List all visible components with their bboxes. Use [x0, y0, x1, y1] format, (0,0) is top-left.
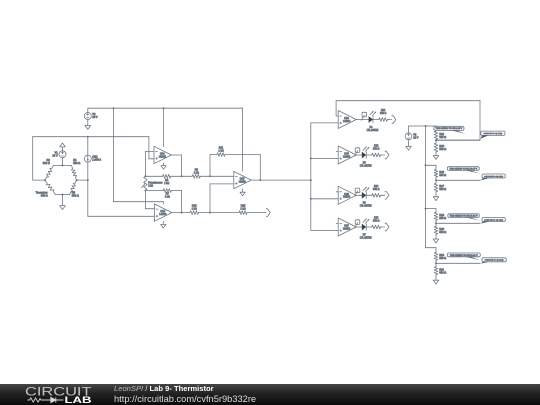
node bridge top	[62, 164, 64, 166]
wire ammeter to OA2 plus	[88, 215, 155, 217]
svg-text:THIS NEEDS TO BE 10-17 V: THIS NEEDS TO BE 10-17 V	[449, 168, 477, 170]
wire OA1 minus to gain node	[145, 151, 154, 176]
svg-text:1 kΩ: 1 kΩ	[240, 207, 245, 210]
LED D6	[355, 187, 372, 208]
callout note 1	[434, 126, 466, 134]
wire OA4 output	[356, 119, 368, 121]
wire OA5 minus stub	[336, 151, 338, 153]
output flag comparator 1	[392, 116, 396, 124]
wire R25 to flag	[381, 226, 385, 228]
svg-text:10 V: 10 V	[413, 136, 419, 140]
resistor R24	[372, 186, 381, 197]
ammeter AM1	[84, 137, 101, 217]
svg-text:R23: R23	[374, 146, 379, 148]
wire D4 to R22	[373, 119, 379, 121]
node bridge left	[44, 179, 46, 181]
wire bridge top segment	[54, 164, 72, 166]
resistor R6	[163, 174, 171, 184]
svg-text:R24: R24	[374, 186, 379, 188]
svg-text:560 Ω: 560 Ω	[373, 149, 380, 151]
wire ladder 2 tap out	[436, 179, 480, 181]
svg-text:OA5: OA5	[344, 153, 349, 156]
wire bus to ladder 2	[425, 164, 437, 166]
callout connect 1	[481, 131, 505, 139]
resistor R16	[434, 169, 446, 177]
resistor R2 bridge top-left	[43, 158, 54, 180]
resistor R20	[434, 252, 446, 260]
svg-text:THIS NEEDS TO BE 8-10 V: THIS NEEDS TO BE 8-10 V	[436, 128, 463, 130]
wire ladder 1 chain	[435, 126, 437, 156]
ground ladder 3	[433, 239, 439, 243]
svg-text:500 Ω: 500 Ω	[43, 161, 50, 165]
node OA1-fb	[181, 175, 183, 177]
op-amp OA3	[234, 171, 251, 188]
svg-text:OA6: OA6	[344, 193, 349, 196]
resistor R7	[163, 189, 171, 199]
svg-text:500 Ω: 500 Ω	[439, 188, 446, 191]
ground below V2	[85, 126, 91, 130]
resistor R10	[190, 204, 199, 214]
svg-text:LTL-307EE: LTL-307EE	[360, 206, 372, 208]
ground below V3	[406, 146, 412, 150]
wire left drop to bridge	[33, 137, 45, 180]
ground below OA3	[240, 189, 245, 196]
svg-text:Potentiometer: Potentiometer	[148, 182, 163, 185]
svg-text:LTL-307EE: LTL-307EE	[360, 165, 372, 167]
node bridge-right to ammeter	[77, 179, 89, 181]
svg-text:1 kΩ: 1 kΩ	[192, 207, 197, 210]
svg-text:LM324: LM324	[159, 214, 167, 216]
svg-text:500 Ω: 500 Ω	[439, 217, 446, 220]
op-amp comparator OA5	[338, 146, 356, 164]
wire bus to comp3	[310, 198, 338, 200]
node junction rail-x113.5	[113, 107, 115, 109]
resistor R19	[434, 226, 446, 234]
svg-text:OA1: OA1	[160, 153, 165, 156]
voltage source V1 above bridge	[52, 143, 66, 165]
wire OA6 output	[356, 194, 362, 196]
wire bus to ladder 4	[426, 247, 437, 249]
svg-text:THIS NEEDS TO BE 24-31 V: THIS NEEDS TO BE 24-31 V	[450, 255, 478, 257]
svg-text:500 Ω: 500 Ω	[439, 257, 446, 260]
wire OA7 minus stub	[336, 223, 338, 225]
ground ladder 2	[433, 197, 439, 201]
svg-text:1 kΩ: 1 kΩ	[218, 149, 223, 152]
callout note 3	[448, 214, 480, 221]
wire bus to comp2	[310, 157, 338, 159]
wire OA5 output	[356, 154, 362, 156]
svg-text:LM324: LM324	[343, 121, 351, 123]
wire ladder 3 tap out	[436, 222, 480, 224]
svg-text:LTL-307EE: LTL-307EE	[360, 237, 372, 239]
resistor R11	[217, 146, 225, 156]
LED D5	[355, 147, 372, 168]
svg-text:500 Ω: 500 Ω	[439, 148, 446, 151]
wire ladder 1 tap out	[436, 139, 480, 141]
svg-text:LM324: LM324	[343, 156, 351, 158]
wire R7 feedback row	[145, 191, 181, 213]
wire bus to comp1	[311, 122, 338, 124]
node gain-left	[144, 175, 146, 177]
wire R22 to flag	[387, 119, 391, 121]
wire OA1 V+ power drop	[163, 108, 165, 147]
footer bar	[0, 384, 540, 405]
svg-text:LM324: LM324	[343, 197, 351, 199]
wire ladder 2 chain	[435, 165, 437, 196]
LED D4	[361, 111, 378, 132]
resistor R12	[434, 131, 446, 140]
resistor R18	[434, 212, 446, 220]
svg-text:500 Ω: 500 Ω	[439, 271, 446, 274]
svg-text:connects to op amp: connects to op amp	[485, 259, 504, 262]
wire comparator bus	[310, 123, 312, 230]
op-amp comparator OA6	[338, 186, 356, 204]
svg-text:LTL-307EE: LTL-307EE	[367, 130, 379, 132]
svg-text:10 V: 10 V	[52, 153, 58, 157]
wire ladder bus	[425, 126, 427, 248]
svg-text:connects to op amp: connects to op amp	[484, 175, 503, 178]
svg-text:D6: D6	[363, 203, 367, 205]
svg-text:500 Ω: 500 Ω	[439, 174, 446, 177]
wire OA4 minus to ladder tap	[336, 101, 480, 141]
callout note 2	[447, 167, 480, 174]
wire R11 branch	[210, 155, 260, 181]
wire D7 to R25	[367, 226, 372, 228]
node ladder 4 tap	[435, 262, 437, 264]
wire bus to comp4	[311, 229, 338, 231]
node junction ammeter top	[87, 136, 89, 138]
node bus feed	[310, 179, 312, 181]
wire ladder 4 tap out	[436, 262, 480, 264]
resistor R23	[372, 146, 381, 157]
wire R23 to flag	[381, 154, 385, 156]
wire D5 to R23	[367, 154, 372, 156]
svg-text:OA3: OA3	[240, 178, 245, 181]
output flag comparator 3	[385, 192, 389, 200]
callout connect 4	[480, 258, 506, 264]
wire bus to ladder 3	[425, 208, 437, 210]
wire gain node row	[145, 175, 233, 177]
resistor R25	[372, 218, 381, 229]
svg-text:2 kΩ: 2 kΩ	[148, 186, 153, 188]
output flag comparator 4	[385, 223, 389, 231]
wire V3 to ladder 1	[409, 125, 437, 127]
op-amp OA1	[154, 146, 171, 163]
svg-text:500 Ω: 500 Ω	[439, 231, 446, 234]
wire OA6 minus stub	[336, 191, 338, 193]
node OA2-fb	[181, 212, 183, 214]
ground below OA2	[161, 221, 166, 228]
wire D6 to R24	[367, 194, 372, 196]
svg-text:connects to op amp: connects to op amp	[484, 218, 503, 221]
wire OA3 plus link	[210, 184, 234, 213]
thermistor R bridge bottom-left	[36, 180, 56, 197]
node ladder 3 tap	[435, 222, 437, 224]
svg-text:1.089 A: 1.089 A	[92, 158, 101, 162]
svg-text:1 kΩ: 1 kΩ	[164, 182, 169, 185]
svg-text:500 Ω: 500 Ω	[41, 194, 48, 197]
svg-text:THIS NEEDS TO BE 17-24 V: THIS NEEDS TO BE 17-24 V	[450, 216, 478, 218]
wire OA3 output to bus	[252, 179, 311, 181]
op-amp comparator OA4	[338, 111, 356, 129]
callout connect 2	[480, 174, 505, 181]
node ladder 1 tap	[435, 139, 437, 141]
svg-text:1 kΩ: 1 kΩ	[194, 172, 199, 175]
voltage source V3	[405, 126, 419, 146]
wire OA3 V+ power drop	[242, 108, 244, 171]
resistor R5 bridge bottom-right	[70, 180, 79, 197]
svg-text:10 V: 10 V	[92, 115, 98, 119]
svg-text:D4: D4	[370, 127, 374, 129]
wire OA2 minus to gain node	[145, 191, 154, 209]
svg-text:OA2: OA2	[160, 210, 165, 213]
svg-text:OA7: OA7	[344, 225, 349, 228]
svg-text:D7: D7	[363, 234, 367, 236]
ground below bridge	[60, 195, 66, 210]
LED D7	[355, 219, 372, 240]
node bridge right	[76, 179, 78, 181]
CircuitLab logo	[24, 384, 104, 405]
wire OA1 feedback	[171, 155, 181, 176]
wire +10V rail from V2 across top	[88, 107, 243, 109]
ground ladder 1	[433, 156, 439, 160]
node junction rail-OA1	[163, 107, 165, 109]
callout connect 3	[480, 218, 505, 224]
wire power drop to OA2 V+	[114, 108, 164, 204]
op-amp OA2	[154, 204, 171, 221]
potentiometer P1	[142, 176, 163, 190]
wire OA2 output row	[171, 212, 266, 214]
wire bridge-left node to OA1 plus	[33, 137, 154, 159]
resistor R15	[239, 204, 247, 214]
svg-text:LM324: LM324	[343, 228, 351, 230]
node R11-drop	[209, 175, 211, 177]
svg-text:connects to op amp: connects to op amp	[484, 132, 503, 135]
node OA2-R10	[209, 212, 211, 214]
svg-text:500 Ω: 500 Ω	[439, 136, 446, 139]
ground ladder 4	[433, 280, 439, 284]
wire ladder 4 chain	[435, 248, 437, 281]
footer url	[114, 394, 256, 404]
svg-text:560 Ω: 560 Ω	[373, 221, 380, 223]
wire ladder 3 chain	[435, 209, 437, 239]
svg-text:LAB: LAB	[65, 394, 92, 405]
op-amp comparator OA7	[338, 218, 356, 236]
resistor R13	[434, 143, 446, 152]
svg-text:OA4: OA4	[344, 117, 349, 120]
resistor R4 bridge top-right	[71, 158, 80, 180]
resistor R9	[192, 169, 200, 179]
resistor R22	[379, 110, 388, 121]
node pot-bottom	[144, 190, 146, 192]
node bridge bottom	[62, 194, 64, 196]
svg-text:560 Ω: 560 Ω	[373, 189, 380, 191]
wire OA7 output	[356, 226, 362, 228]
svg-text:560 Ω: 560 Ω	[380, 113, 387, 115]
output flag comparator 2	[385, 151, 389, 159]
svg-text:R22: R22	[381, 110, 386, 112]
resistor R21	[434, 267, 446, 275]
voltage source V2	[84, 108, 98, 125]
node ladder 2 tap	[435, 179, 437, 181]
wire R24 to flag	[381, 194, 385, 196]
resistor R17	[434, 183, 446, 191]
svg-text:R25: R25	[374, 218, 379, 220]
callout note 4	[447, 253, 480, 260]
svg-text:LM324: LM324	[239, 182, 247, 184]
svg-text:1 kΩ: 1 kΩ	[165, 196, 170, 199]
svg-text:500 Ω: 500 Ω	[72, 193, 79, 197]
output flag VOUT	[266, 209, 270, 217]
wire bridge bottom segment	[55, 194, 69, 196]
svg-text:D5: D5	[363, 162, 367, 164]
ground below OA1	[161, 163, 166, 169]
svg-text:LM324: LM324	[159, 156, 167, 158]
footer title	[114, 385, 214, 393]
svg-text:500 Ω: 500 Ω	[73, 161, 80, 165]
